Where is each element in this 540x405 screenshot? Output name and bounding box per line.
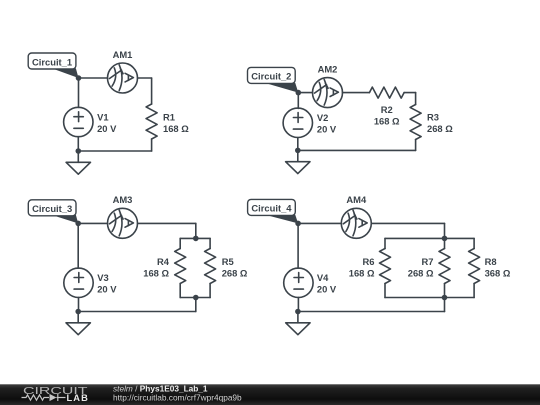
svg-text:AM4: AM4 <box>346 194 367 205</box>
svg-text:AM1: AM1 <box>113 49 133 60</box>
svg-text:Circuit_2: Circuit_2 <box>251 71 291 82</box>
svg-text:R2: R2 <box>381 104 393 115</box>
svg-text:R8: R8 <box>485 256 497 267</box>
svg-text:268 Ω: 268 Ω <box>427 123 453 134</box>
svg-text:168 Ω: 168 Ω <box>163 123 189 134</box>
svg-text:R1: R1 <box>163 111 175 122</box>
svg-text:R4: R4 <box>157 256 170 267</box>
svg-text:AM3: AM3 <box>113 194 133 205</box>
svg-text:268 Ω: 268 Ω <box>222 267 248 278</box>
svg-text:168 Ω: 168 Ω <box>349 267 375 278</box>
svg-text:Circuit_3: Circuit_3 <box>32 203 72 214</box>
svg-text:Circuit_1: Circuit_1 <box>32 56 72 67</box>
svg-text:R3: R3 <box>427 111 439 122</box>
svg-text:AM2: AM2 <box>318 63 338 74</box>
svg-text:V3: V3 <box>97 272 108 283</box>
svg-text:268 Ω: 268 Ω <box>408 267 434 278</box>
svg-text:Circuit_4: Circuit_4 <box>251 203 292 214</box>
svg-text:20 V: 20 V <box>97 284 117 295</box>
svg-text:20 V: 20 V <box>317 124 337 135</box>
svg-text:R7: R7 <box>422 256 434 267</box>
svg-text:168 Ω: 168 Ω <box>143 267 169 278</box>
svg-text:168 Ω: 168 Ω <box>374 115 400 126</box>
svg-text:368 Ω: 368 Ω <box>485 267 511 278</box>
svg-text:20 V: 20 V <box>97 123 117 134</box>
svg-text:V1: V1 <box>97 111 108 122</box>
svg-text:LAB: LAB <box>67 393 89 403</box>
svg-text:R6: R6 <box>363 256 375 267</box>
svg-text:V4: V4 <box>317 272 329 283</box>
svg-text:R5: R5 <box>222 256 234 267</box>
svg-text:V2: V2 <box>317 112 328 123</box>
svg-text:20 V: 20 V <box>317 284 337 295</box>
svg-text:http://circuitlab.com/crf7wpr4: http://circuitlab.com/crf7wpr4qpa9b <box>113 392 242 402</box>
